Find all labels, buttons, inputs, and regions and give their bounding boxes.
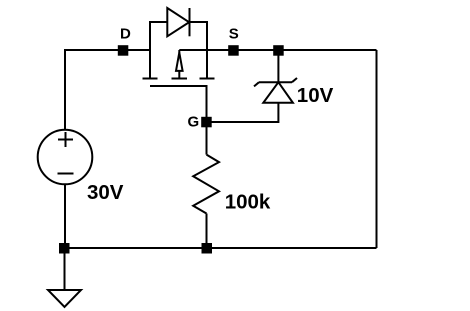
wire resistor bottom bbox=[206, 214, 208, 249]
wire top-left D net bbox=[65, 49, 150, 51]
node S bbox=[228, 45, 239, 56]
wire right vertical bbox=[376, 50, 378, 248]
zener diode D2 bbox=[254, 78, 297, 103]
wire zener top lead bbox=[277, 50, 279, 82]
wire left vertical to source bbox=[64, 49, 66, 130]
node S-zener junction bbox=[273, 45, 284, 56]
node bottom-left bbox=[59, 243, 70, 254]
gate bar bbox=[150, 85, 207, 87]
node D bbox=[118, 45, 129, 56]
gate lead down bbox=[206, 85, 208, 122]
source leg bbox=[206, 21, 208, 79]
wire below source bbox=[64, 184, 66, 248]
node G bbox=[201, 117, 212, 128]
node resistor-bottom bbox=[202, 243, 213, 254]
svg-text:S: S bbox=[229, 26, 239, 43]
wire gate node to resistor bbox=[206, 122, 208, 155]
body diode D1 bbox=[150, 8, 207, 36]
resistor R1 bbox=[193, 155, 219, 214]
wire bottom rail bbox=[64, 247, 377, 249]
voltage source V1 bbox=[38, 130, 93, 185]
wire to ground bbox=[64, 253, 66, 290]
svg-text:D: D bbox=[120, 26, 131, 43]
transistor M1 bbox=[143, 21, 215, 122]
drain leg bbox=[149, 21, 151, 79]
svg-text:30V: 30V bbox=[87, 181, 124, 204]
wire zener bottom to gate bbox=[207, 103, 279, 122]
svg-text:G: G bbox=[188, 113, 200, 130]
ground bbox=[48, 290, 81, 307]
svg-text:100k: 100k bbox=[225, 191, 271, 214]
wire S net top bbox=[179, 49, 376, 51]
bulk leg with arrow bbox=[178, 50, 180, 53]
svg-text:10V: 10V bbox=[297, 84, 334, 107]
